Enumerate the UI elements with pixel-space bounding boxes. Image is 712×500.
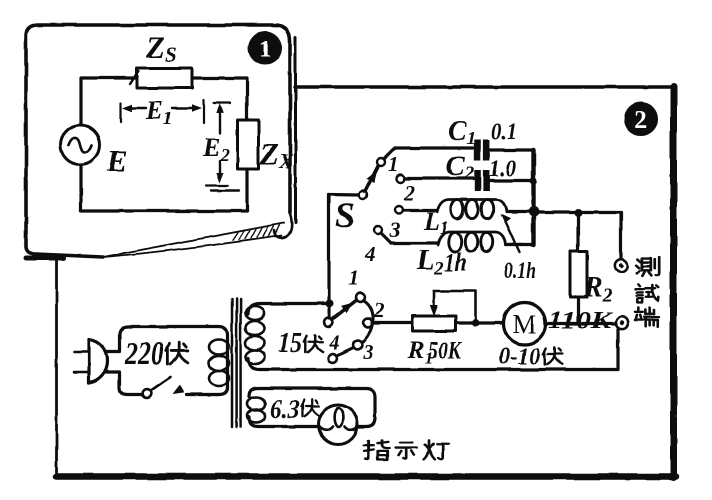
svg-text:2: 2 <box>403 181 415 205</box>
svg-text:50K: 50K <box>428 338 463 364</box>
svg-text:4: 4 <box>364 242 376 266</box>
svg-text:220: 220 <box>124 336 164 372</box>
svg-text:15: 15 <box>278 328 302 359</box>
svg-text:3: 3 <box>362 340 374 364</box>
svg-text:1: 1 <box>259 36 272 63</box>
svg-text:2: 2 <box>373 298 385 322</box>
svg-text:1: 1 <box>388 152 399 176</box>
svg-text:M: M <box>512 309 536 339</box>
svg-text:4: 4 <box>328 330 340 354</box>
svg-text:1: 1 <box>348 266 359 290</box>
svg-text:0.1: 0.1 <box>491 119 517 144</box>
svg-text:1.0: 1.0 <box>489 156 516 181</box>
svg-text:1h: 1h <box>444 248 467 277</box>
svg-text:0.1h: 0.1h <box>504 258 536 283</box>
svg-text:110K: 110K <box>548 308 613 334</box>
svg-text:3: 3 <box>389 218 401 242</box>
svg-text:E: E <box>106 143 128 178</box>
svg-text:S: S <box>335 195 355 235</box>
svg-text:0-10: 0-10 <box>499 344 540 370</box>
svg-text:2: 2 <box>635 107 648 134</box>
svg-text:6.3: 6.3 <box>270 395 300 424</box>
